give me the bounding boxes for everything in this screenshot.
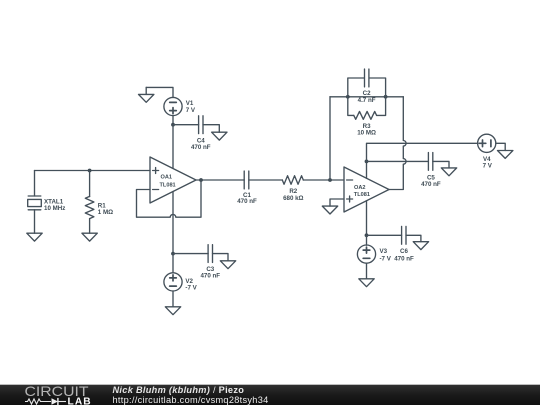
svg-text:7 V: 7 V bbox=[186, 107, 196, 114]
wire C3 right to ground bbox=[213, 254, 229, 261]
ground right of V4 bbox=[498, 151, 513, 159]
wire V1 bottom to node bbox=[172, 116, 174, 125]
label OA2 TL081 bbox=[354, 185, 370, 198]
capacitor C5 bbox=[428, 153, 432, 171]
node OA1 V-/V2/C3 bbox=[171, 252, 175, 256]
node C2/R3 right tap bbox=[384, 95, 388, 99]
node V1/C4/OA1 supply bbox=[171, 123, 175, 127]
wire C1 to R2 bbox=[249, 179, 282, 181]
wire feedback right riser with hops over V4 and C5 wires bbox=[389, 97, 406, 190]
svg-text:OA1: OA1 bbox=[161, 175, 173, 181]
label OA1 TL081 bbox=[160, 175, 176, 189]
wire XTAL1 bottom lead bbox=[34, 210, 36, 233]
node R2/feedback/OA2 input bbox=[328, 178, 332, 182]
resistor R2 bbox=[282, 176, 303, 185]
svg-text:OA2: OA2 bbox=[354, 185, 366, 191]
resistor R3 bbox=[354, 111, 377, 119]
ground below R1 bbox=[82, 233, 97, 241]
wire R2 to OA2 minus input bbox=[303, 179, 344, 181]
wire node to C4 left plate bbox=[173, 124, 199, 126]
label R3 10 MOhm bbox=[357, 123, 376, 137]
wire OA1 output bbox=[196, 179, 244, 181]
voltage source V1 (minus top, plus bottom) bbox=[164, 97, 182, 115]
voltage source V2 (plus top, minus bottom) bbox=[164, 273, 182, 291]
wire R1 top lead bbox=[89, 171, 91, 197]
ground below V2 bbox=[165, 307, 180, 315]
capacitor C1 bbox=[244, 171, 249, 189]
voltage source V3 (plus top, minus bottom) bbox=[357, 245, 375, 263]
wire R1 bottom lead bbox=[89, 219, 91, 234]
wire R3 branch frame bbox=[348, 97, 386, 116]
op-amp OA1 bbox=[150, 157, 196, 203]
svg-text:470 nF: 470 nF bbox=[200, 273, 220, 280]
wire ground to V1 top bbox=[146, 87, 173, 97]
voltage source V4 (plus left, minus right) bbox=[478, 134, 496, 152]
label C2 4.7 nF bbox=[358, 90, 376, 104]
label V1 7 V bbox=[186, 100, 196, 114]
svg-text:470 nF: 470 nF bbox=[191, 144, 211, 151]
label V4 7 V bbox=[483, 156, 493, 169]
wire C5 right to ground bbox=[433, 161, 449, 168]
svg-text:470 nF: 470 nF bbox=[394, 255, 414, 262]
wire OA2 V+ pin up to node bbox=[366, 161, 368, 178]
capacitor C3 bbox=[208, 245, 212, 263]
ground right of C3 bbox=[220, 261, 235, 269]
wire feedback left riser bbox=[329, 97, 331, 180]
label C1 470 nF bbox=[237, 192, 257, 205]
label V2 -7 V bbox=[185, 278, 197, 292]
label R2 680 kOhm bbox=[283, 188, 303, 202]
ground right of C4 bbox=[212, 132, 227, 140]
ground below V3 bbox=[359, 279, 374, 287]
wire node down to V2 top bbox=[172, 254, 174, 273]
svg-text:470 nF: 470 nF bbox=[421, 181, 441, 188]
resistor R1 bbox=[85, 196, 94, 218]
svg-text:1 MΩ: 1 MΩ bbox=[98, 209, 113, 216]
wire C2 branch frame bbox=[348, 78, 386, 97]
ground above V1 bbox=[139, 87, 154, 102]
label XTAL1 10 MHz bbox=[44, 198, 65, 211]
svg-text:-7 V: -7 V bbox=[185, 285, 197, 292]
wire C4 right to ground bbox=[203, 125, 219, 133]
CircuitLab logo bbox=[0, 385, 100, 405]
svg-text:4.7 nF: 4.7 nF bbox=[358, 97, 376, 104]
wire OA1 V- pin down to node bbox=[172, 192, 174, 254]
wire node to C6 left plate bbox=[367, 234, 402, 236]
credit text bbox=[113, 386, 269, 405]
wire top rail from XTAL1 to OA1 + input bbox=[35, 170, 151, 172]
capacitor C6 bbox=[402, 226, 406, 244]
crystal XTAL1 bbox=[28, 196, 42, 210]
svg-text:C6: C6 bbox=[400, 248, 408, 255]
wire V4 right to ground bbox=[496, 143, 505, 150]
label C6 470 nF bbox=[394, 248, 414, 262]
svg-text:10 MHz: 10 MHz bbox=[44, 205, 65, 212]
wire node right to C5 bbox=[367, 160, 429, 162]
svg-text:TL081: TL081 bbox=[354, 192, 370, 198]
wire feedback mid rail bbox=[330, 96, 403, 98]
svg-text:470 nF: 470 nF bbox=[237, 198, 257, 205]
svg-text:-7 V: -7 V bbox=[380, 255, 392, 262]
node C2/R3 left tap bbox=[346, 95, 350, 99]
svg-text:10 MΩ: 10 MΩ bbox=[357, 130, 376, 137]
label R1 1 MOhm bbox=[98, 203, 113, 216]
op-amp OA2 bbox=[344, 167, 389, 212]
wire OA1 feedback loop with hop over supply wire bbox=[137, 180, 202, 217]
wire node down to OA1 V+ pin bbox=[172, 125, 174, 169]
svg-text:V3: V3 bbox=[380, 248, 388, 255]
svg-text:680 kΩ: 680 kΩ bbox=[283, 195, 303, 202]
label V3 -7 V bbox=[380, 248, 392, 262]
label C3 470 nF bbox=[200, 266, 220, 279]
wire OA2 V- pin down to node bbox=[366, 201, 368, 236]
svg-text:TL081: TL081 bbox=[160, 182, 176, 188]
wire V2 bottom to ground bbox=[172, 291, 174, 307]
ground at OA2 plus input bbox=[322, 206, 337, 214]
ground right of C6 bbox=[413, 242, 428, 250]
node OA2 V-/V3/C6 bbox=[365, 233, 369, 237]
node OA1 output/feedback bbox=[199, 178, 203, 182]
svg-text:7 V: 7 V bbox=[483, 162, 493, 169]
ground right of C5 bbox=[441, 168, 456, 176]
footer bar bbox=[0, 384, 540, 405]
node OA2 V+ supply bbox=[365, 160, 369, 164]
wire node to C3 left plate bbox=[173, 253, 208, 255]
label C5 470 nF bbox=[421, 174, 441, 187]
wire V3 bottom to ground bbox=[366, 263, 368, 279]
wire XTAL1 top lead bbox=[34, 171, 36, 197]
svg-text:C2: C2 bbox=[363, 90, 371, 97]
wire OA2 plus input to ground bbox=[330, 199, 344, 206]
svg-text:LAB: LAB bbox=[68, 396, 92, 405]
node junction R1 tap bbox=[88, 169, 92, 173]
capacitor C2 bbox=[365, 69, 369, 87]
capacitor C4 bbox=[199, 116, 203, 134]
label C4 470 nF bbox=[191, 138, 211, 151]
ground below XTAL1 bbox=[27, 233, 42, 241]
wire C6 right to ground bbox=[406, 235, 421, 241]
wire node down to V3 top bbox=[366, 235, 368, 245]
wire node up and right to V4 bbox=[367, 143, 478, 161]
